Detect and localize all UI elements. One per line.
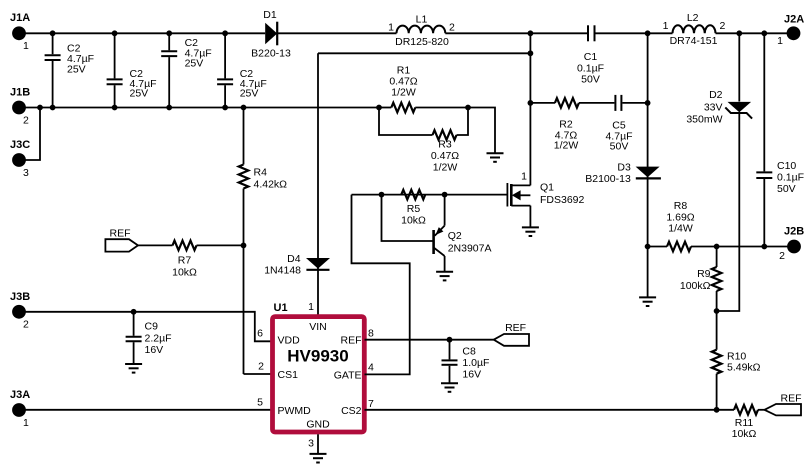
resistor R4 4.42k bbox=[239, 108, 287, 191]
wire top of VIN line bbox=[318, 52, 530, 54]
inductor L1 DR125-820 bbox=[388, 13, 455, 48]
connector J3A pin 1 bbox=[10, 389, 30, 429]
wire J3C to rail bbox=[26, 108, 41, 161]
svg-text:2: 2 bbox=[23, 319, 29, 331]
svg-text:REF: REF bbox=[505, 322, 526, 334]
resistor R10 5.49k bbox=[712, 311, 761, 410]
inductor L2 DR74-151 bbox=[663, 12, 726, 47]
diode D1 B220-13 bbox=[251, 9, 291, 59]
svg-text:VIN: VIN bbox=[309, 321, 327, 333]
pin 3 GND bbox=[306, 419, 330, 450]
connector J1B pin 2 bbox=[10, 87, 30, 127]
junction node 11 bbox=[112, 105, 118, 111]
svg-text:B2100-13: B2100-13 bbox=[585, 173, 631, 185]
junction node 29 bbox=[714, 407, 720, 413]
svg-text:R7: R7 bbox=[178, 255, 192, 267]
zener D2 33V 350mW bbox=[686, 89, 752, 126]
junction node 2 bbox=[112, 30, 118, 36]
svg-text:0.1µF: 0.1µF bbox=[777, 171, 804, 183]
ground C8 bbox=[441, 383, 458, 392]
wire VIN vertical bbox=[317, 53, 319, 316]
svg-text:PWMD: PWMD bbox=[278, 405, 312, 417]
connector J3B pin 2 bbox=[10, 291, 30, 331]
resistor R1 0.47ohm 1/2W bbox=[379, 65, 468, 113]
junction node 14 bbox=[241, 105, 247, 111]
junction node 1 bbox=[50, 30, 56, 36]
svg-text:50V: 50V bbox=[610, 141, 629, 153]
diode D4 1N4148 bbox=[264, 253, 330, 277]
svg-text:25V: 25V bbox=[185, 58, 204, 70]
wire C1 to L2 bbox=[596, 32, 673, 34]
svg-text:R5: R5 bbox=[407, 203, 421, 215]
connector J1A pin 1 bbox=[10, 12, 30, 52]
svg-text:2: 2 bbox=[23, 115, 29, 127]
svg-text:D2: D2 bbox=[709, 89, 723, 101]
wire J3B to VDD bbox=[26, 312, 274, 342]
svg-text:D4: D4 bbox=[287, 253, 301, 265]
wire top rail J1A to D1 bbox=[26, 32, 266, 34]
svg-text:16V: 16V bbox=[145, 344, 164, 356]
svg-text:5: 5 bbox=[257, 396, 263, 408]
svg-text:2: 2 bbox=[449, 22, 455, 34]
svg-text:10kΩ: 10kΩ bbox=[172, 267, 197, 279]
connector J2B pin 2 bbox=[779, 226, 804, 263]
junction node 6 bbox=[645, 30, 651, 36]
wire C5 to D3 line bbox=[622, 102, 647, 104]
svg-text:J3A: J3A bbox=[10, 389, 30, 401]
svg-text:0.47Ω: 0.47Ω bbox=[431, 150, 459, 162]
wire D3 to ground bbox=[647, 247, 649, 298]
svg-text:REF: REF bbox=[341, 334, 362, 346]
junction node 24 bbox=[447, 337, 453, 343]
wire drain to R2 bbox=[530, 102, 555, 104]
wire rail to ground stub bbox=[468, 108, 495, 154]
svg-text:1/4W: 1/4W bbox=[668, 222, 693, 234]
svg-text:J3B: J3B bbox=[10, 291, 30, 303]
junction node 9 bbox=[37, 105, 43, 111]
wire J1B rail bbox=[26, 107, 380, 109]
wire Q1 source bbox=[529, 206, 531, 228]
wire D2 cathode down bbox=[717, 113, 740, 311]
junction node 7 bbox=[736, 30, 742, 36]
svg-text:3: 3 bbox=[308, 437, 314, 449]
svg-text:1/2W: 1/2W bbox=[554, 140, 579, 152]
capacitor C2 (2) 4.7uF 25V bbox=[107, 33, 157, 107]
wire L1 to C1 bbox=[445, 32, 587, 34]
pin 5 PWMD bbox=[257, 396, 311, 416]
wire REF pin8 bbox=[365, 339, 494, 341]
wire U1 GND pin bbox=[317, 434, 319, 454]
capacitor C1 0.1uF 50V bbox=[577, 25, 604, 85]
wire Q1 drain vertical bbox=[529, 33, 531, 185]
svg-text:350mW: 350mW bbox=[686, 114, 722, 126]
junction node 27 bbox=[761, 244, 767, 250]
svg-text:4.42kΩ: 4.42kΩ bbox=[254, 179, 288, 191]
capacitor C2 (3) 4.7uF 25V bbox=[161, 33, 211, 107]
junction node 4 bbox=[222, 30, 228, 36]
wire L2 to J2A bbox=[716, 32, 788, 34]
svg-text:J1A: J1A bbox=[10, 12, 30, 24]
svg-text:J1B: J1B bbox=[10, 87, 30, 99]
transistor Q2 2N3907A bbox=[434, 195, 492, 272]
svg-text:DR125-820: DR125-820 bbox=[395, 36, 449, 48]
resistor R5 10k bbox=[401, 190, 426, 227]
svg-text:D3: D3 bbox=[617, 162, 631, 174]
svg-text:25V: 25V bbox=[240, 87, 259, 99]
svg-text:Q1: Q1 bbox=[540, 182, 554, 194]
junction node 8 bbox=[761, 30, 767, 36]
pin 1 VIN bbox=[308, 301, 327, 333]
svg-text:50V: 50V bbox=[777, 183, 796, 195]
junction node 3 bbox=[166, 30, 172, 36]
wire CS2 to R11 bbox=[365, 409, 735, 411]
svg-text:3: 3 bbox=[23, 167, 29, 179]
REF flag bottom right bbox=[765, 392, 802, 415]
svg-text:25V: 25V bbox=[67, 64, 86, 76]
wire PWMD J3A to U1 bbox=[26, 409, 274, 411]
ground D3 line bbox=[639, 297, 656, 306]
junction node 12 bbox=[166, 105, 172, 111]
capacitor C2 (4) 4.7uF 25V bbox=[217, 33, 267, 107]
junction node 23 bbox=[131, 309, 137, 315]
wire GATE net bbox=[352, 195, 410, 375]
connector J2A pin 1 bbox=[777, 14, 804, 48]
wire R2 to C5 bbox=[579, 102, 615, 104]
svg-text:25V: 25V bbox=[130, 87, 149, 99]
ground U1 GND bbox=[310, 454, 327, 463]
junction node 17 bbox=[528, 50, 534, 56]
op-amp U1 HV9930 outline bbox=[273, 302, 365, 432]
svg-text:GND: GND bbox=[306, 419, 330, 431]
svg-text:1.0µF: 1.0µF bbox=[462, 357, 489, 369]
connector J3C pin 3 bbox=[10, 139, 30, 179]
svg-text:CS2: CS2 bbox=[341, 405, 362, 417]
capacitor C8 1.0uF 16V bbox=[442, 340, 490, 384]
svg-text:1/2W: 1/2W bbox=[391, 86, 416, 98]
junction node 16 bbox=[465, 105, 471, 111]
svg-text:4: 4 bbox=[368, 362, 374, 374]
pin 4 GATE bbox=[334, 362, 374, 382]
svg-text:6: 6 bbox=[257, 328, 263, 340]
svg-text:1: 1 bbox=[777, 35, 783, 47]
ground after R1R3 bbox=[487, 153, 504, 162]
svg-text:DR74-151: DR74-151 bbox=[670, 35, 718, 47]
svg-text:VDD: VDD bbox=[278, 334, 301, 346]
junction node 20 bbox=[379, 192, 385, 198]
svg-text:J2A: J2A bbox=[784, 14, 804, 26]
wire CS1 into U1 bbox=[244, 373, 274, 375]
svg-text:10kΩ: 10kΩ bbox=[732, 428, 757, 440]
svg-text:L1: L1 bbox=[416, 13, 428, 25]
svg-text:1: 1 bbox=[308, 301, 314, 313]
svg-text:C8: C8 bbox=[462, 345, 476, 357]
svg-text:1N4148: 1N4148 bbox=[264, 265, 301, 277]
resistor R7 10k bbox=[138, 241, 244, 279]
svg-text:50V: 50V bbox=[581, 74, 600, 86]
wire gate rail bbox=[352, 194, 508, 196]
svg-text:33V: 33V bbox=[704, 101, 723, 113]
svg-text:2.2µF: 2.2µF bbox=[145, 332, 172, 344]
svg-text:10kΩ: 10kΩ bbox=[401, 215, 426, 227]
mosfet Q1 FDS3692 bbox=[507, 171, 584, 207]
wire D1 to L1 bbox=[277, 32, 396, 34]
svg-text:REF: REF bbox=[110, 227, 131, 239]
pin 6 VDD bbox=[257, 328, 300, 347]
svg-text:C9: C9 bbox=[145, 321, 159, 333]
svg-text:D1: D1 bbox=[263, 9, 277, 21]
capacitor C9 2.2uF 16V bbox=[126, 312, 172, 364]
junction node 22 bbox=[241, 243, 247, 249]
svg-text:8: 8 bbox=[368, 327, 374, 339]
svg-text:C10: C10 bbox=[777, 160, 796, 172]
resistor R11 10k bbox=[732, 405, 765, 440]
svg-text:C1: C1 bbox=[584, 51, 598, 63]
junction node 25 bbox=[645, 244, 651, 250]
svg-text:2: 2 bbox=[720, 20, 726, 32]
junction node 5 bbox=[528, 30, 534, 36]
REF flag left bbox=[105, 227, 138, 251]
junction node 13 bbox=[222, 105, 228, 111]
svg-text:1/2W: 1/2W bbox=[433, 162, 458, 174]
svg-text:J3C: J3C bbox=[10, 139, 30, 151]
junction node 10 bbox=[50, 105, 56, 111]
junction node 18 bbox=[528, 100, 534, 106]
svg-text:R3: R3 bbox=[438, 139, 452, 151]
junction node 15 bbox=[376, 105, 382, 111]
svg-text:2: 2 bbox=[779, 250, 785, 262]
ground C9 bbox=[125, 364, 142, 373]
pin 2 CS1 bbox=[258, 361, 298, 381]
svg-text:J2B: J2B bbox=[784, 226, 804, 238]
resistor R9 100k bbox=[680, 247, 722, 312]
svg-text:R4: R4 bbox=[254, 167, 268, 179]
resistor R2 4.7ohm 1/2W bbox=[554, 98, 579, 152]
pin 8 REF bbox=[341, 327, 375, 346]
junction node 21 bbox=[442, 192, 448, 198]
svg-text:Q2: Q2 bbox=[448, 230, 462, 242]
svg-text:16V: 16V bbox=[462, 368, 481, 380]
svg-text:7: 7 bbox=[368, 398, 374, 410]
svg-text:1: 1 bbox=[521, 171, 527, 183]
svg-text:CS1: CS1 bbox=[278, 369, 299, 381]
svg-text:1: 1 bbox=[23, 40, 29, 52]
svg-text:R9: R9 bbox=[697, 268, 711, 280]
svg-text:2N3907A: 2N3907A bbox=[448, 243, 492, 255]
svg-text:B220-13: B220-13 bbox=[251, 47, 291, 59]
svg-text:REF: REF bbox=[781, 392, 802, 404]
svg-text:1: 1 bbox=[23, 417, 29, 429]
svg-text:GATE: GATE bbox=[334, 369, 362, 381]
svg-text:R8: R8 bbox=[674, 200, 688, 212]
REF flag middle bbox=[494, 322, 529, 346]
capacitor C2 (1) 4.7uF 25V bbox=[45, 33, 94, 107]
resistor R8 1.69ohm 1/4W bbox=[648, 200, 788, 251]
diode D3 B2100-13 bbox=[585, 162, 661, 185]
svg-text:FDS3692: FDS3692 bbox=[540, 194, 585, 206]
ground Q2 collector bbox=[436, 272, 453, 281]
wire R4 to CS1 node bbox=[243, 189, 245, 375]
svg-text:1: 1 bbox=[388, 22, 394, 34]
capacitor C10 0.1uF 50V bbox=[756, 33, 804, 246]
wire Q2 base bbox=[382, 195, 433, 241]
junction node 28 bbox=[714, 308, 720, 314]
capacitor C5 4.7uF 50V bbox=[605, 95, 632, 153]
svg-text:U1: U1 bbox=[274, 302, 288, 314]
wire D3 vertical bbox=[647, 33, 649, 246]
svg-text:1: 1 bbox=[663, 20, 669, 32]
pin 7 CS2 bbox=[341, 398, 374, 417]
ground Q1 source bbox=[522, 227, 539, 236]
svg-text:100kΩ: 100kΩ bbox=[680, 280, 711, 292]
svg-text:L2: L2 bbox=[687, 12, 699, 24]
wire D2 top bbox=[738, 33, 740, 101]
resistor R3 0.47ohm 1/2W parallel bbox=[379, 108, 468, 174]
junction node 19 bbox=[645, 100, 651, 106]
svg-text:5.49kΩ: 5.49kΩ bbox=[727, 362, 761, 374]
junction node 26 bbox=[714, 244, 720, 250]
svg-text:HV9930: HV9930 bbox=[287, 347, 348, 366]
svg-text:2: 2 bbox=[258, 361, 264, 373]
